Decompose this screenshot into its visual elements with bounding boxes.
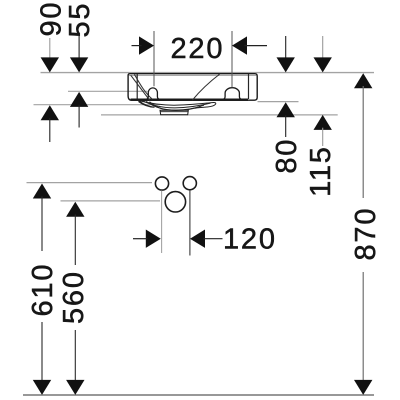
dim 560 line lower (74, 330, 76, 381)
reference line top (basin rim level) (41, 72, 375, 74)
dim 610 bottom arrow (down) (33, 380, 51, 395)
bowl left hook (138, 101, 154, 107)
dim 870 bottom arrow (down) (354, 380, 372, 395)
svg-text:610: 610 (27, 263, 59, 317)
dim 220 left arrow (139, 36, 154, 54)
washbasin left inner wall (136, 74, 138, 99)
bowl fan curve 4 silhouette (150, 102, 201, 111)
dim 90 bottom arrow (up) (41, 105, 59, 120)
dim 120 left arrow (146, 230, 161, 248)
dim 115 lower tail (322, 128, 324, 146)
svg-text:560: 560 (58, 270, 90, 324)
reference line 115 (drain flange bottom) (101, 114, 338, 116)
dim 610 line lower (41, 322, 43, 381)
dim 90 top arrow (down) (41, 57, 59, 72)
bowl fan curve 1 with right hook (140, 101, 216, 108)
dim 80 lower tail (285, 115, 287, 137)
faucet hole small left (155, 177, 168, 190)
dim 80 upper tail (285, 36, 287, 59)
dim 120 extension line right (189, 190, 191, 256)
faucet hole large (165, 192, 185, 212)
dim 120 extension line left (161, 191, 163, 254)
dim 55 upper tail (78, 36, 80, 59)
svg-text:55: 55 (64, 2, 96, 38)
svg-text:115: 115 (305, 145, 337, 197)
dim 610 line upper (41, 196, 43, 251)
reference line 610 (small holes level) (27, 182, 153, 184)
dim 55 top arrow (down) (70, 57, 88, 72)
dim 220 extension line right (231, 31, 233, 88)
washbasin inner rim line (129, 75, 256, 77)
washbasin ledge band (131, 99, 249, 101)
dim 80 bottom arrow (up) (277, 102, 295, 117)
reference line 55 (tap hole center) (68, 90, 148, 92)
dim 55 bottom arrow (up) (70, 92, 88, 107)
mounting hole bump right (223, 88, 241, 100)
svg-text:90: 90 (35, 1, 67, 37)
washbasin right inner seam (248, 74, 250, 99)
reference line 90 (bowl depth) (34, 104, 161, 106)
dim 115 top arrow (down) (314, 57, 332, 72)
dim 560 top arrow (up) (66, 202, 84, 217)
dim 120 right tail (203, 238, 222, 240)
dim 870 top arrow (up) (354, 73, 372, 88)
bowl fan curve 2 (143, 101, 210, 108)
dim 120 right arrow (190, 230, 205, 248)
svg-text:870: 870 (350, 207, 382, 261)
dim 220 right arrow (232, 36, 247, 54)
dim 870 line lower (362, 272, 364, 381)
drain flange mid line (160, 111, 188, 113)
dim 610 top arrow (up) (33, 184, 51, 199)
dim 220 right tail (245, 45, 268, 47)
dim 220 left tail (132, 45, 142, 47)
dim 90 lower tail (49, 118, 51, 142)
svg-text:80: 80 (271, 138, 303, 174)
dim 560 line upper (74, 215, 76, 266)
bowl right sweep curve (192, 74, 220, 100)
bowl left curve (135, 75, 153, 100)
dim 220 extension line left (153, 31, 155, 86)
faucet hole small right (183, 177, 196, 190)
dim 115 upper tail (322, 36, 324, 59)
dim 90 upper tail (49, 38, 51, 59)
reference line 80 (right ledge) (258, 101, 299, 103)
bowl left diagonal (131, 75, 150, 100)
drain flange (160, 110, 188, 115)
dim 120 left tail (133, 238, 148, 240)
floor line (23, 394, 374, 396)
dim 115 bottom arrow (up) (314, 115, 332, 130)
mounting hole bump left (146, 88, 159, 99)
dim 560 bottom arrow (down) (66, 380, 84, 395)
svg-text:120: 120 (223, 224, 277, 256)
dim 870 line upper (362, 86, 364, 198)
dim 80 top arrow (down) (277, 57, 295, 72)
dim 55 lower tail (78, 105, 80, 128)
reference line 560 (large hole level) (61, 200, 161, 202)
bowl fan curve 3 (146, 101, 204, 110)
svg-text:220: 220 (171, 33, 225, 65)
washbasin outer outline (128, 74, 257, 101)
